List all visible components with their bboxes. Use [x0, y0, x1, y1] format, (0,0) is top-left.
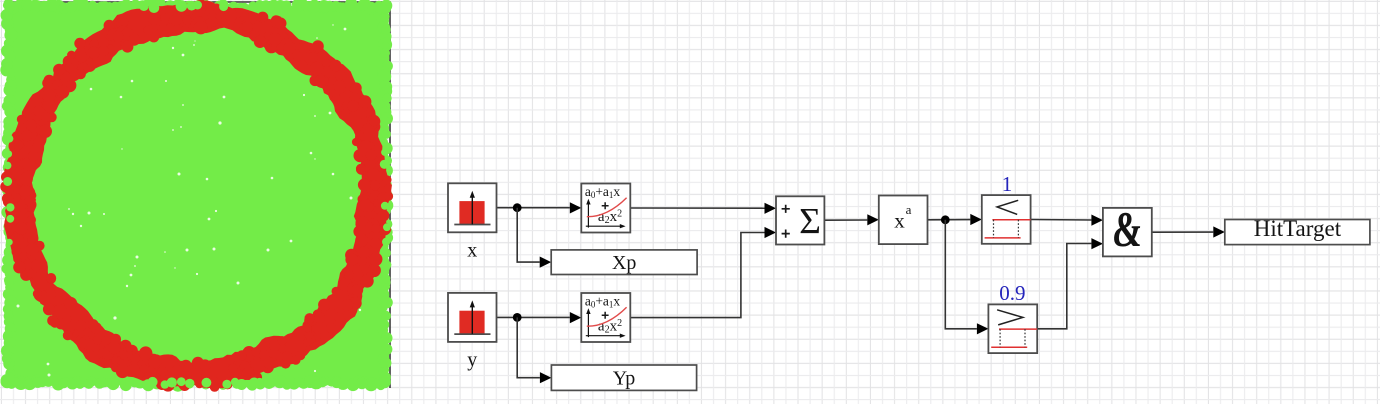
svg-text:0.9: 0.9: [999, 281, 1025, 305]
svg-text:x: x: [467, 239, 477, 261]
svg-text:a: a: [906, 202, 912, 217]
svg-text:&: &: [1111, 203, 1144, 258]
svg-text:x: x: [894, 209, 905, 233]
svg-text:a0+a1x: a0+a1x: [585, 294, 621, 310]
svg-text:Σ: Σ: [799, 202, 821, 243]
svg-text:Yp: Yp: [613, 368, 636, 390]
svg-text:1: 1: [1002, 172, 1013, 196]
svg-text:HitTarget: HitTarget: [1254, 216, 1342, 241]
svg-text:a0+a1x: a0+a1x: [585, 184, 621, 200]
svg-text:Xp: Xp: [612, 252, 636, 274]
svg-text:y: y: [467, 349, 477, 371]
